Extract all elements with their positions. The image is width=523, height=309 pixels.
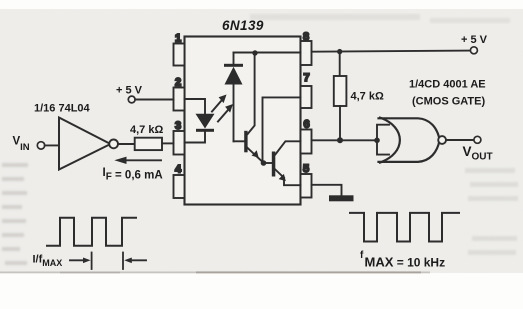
svg-text:4: 4	[175, 164, 182, 176]
wire inverter to R1	[118, 143, 135, 145]
resistor R2	[334, 76, 347, 106]
svg-text:1/16 74L04: 1/16 74L04	[34, 103, 91, 115]
wire NOR to VOUT	[446, 139, 474, 141]
NOR output bubble	[438, 136, 446, 144]
NOR gate U3 1/4 CD4001	[379, 118, 440, 163]
transistor Q1	[244, 53, 263, 163]
pin 6	[301, 130, 312, 154]
pin 1	[174, 44, 185, 66]
node photodiode/Q1 collector junction	[252, 50, 257, 55]
node R2 bottom junction	[337, 137, 343, 143]
svg-text:+ 5 V: + 5 V	[116, 85, 143, 97]
svg-text:3: 3	[175, 120, 181, 132]
arrow IF current direction	[125, 159, 161, 161]
terminal +5V right circle	[470, 47, 477, 54]
wire LED cathode to pin3 internal	[185, 132, 206, 143]
dimension tick left	[91, 253, 93, 270]
transistor Q2	[272, 141, 301, 185]
terminal +5V left circle	[128, 96, 135, 103]
node Q1 emitter / Q2 base junction	[261, 160, 267, 166]
waveform left square wave	[47, 218, 136, 246]
pin 5	[301, 174, 312, 198]
waveform right square wave	[350, 213, 459, 242]
terminal VOUT circle	[474, 136, 481, 143]
wire pin6 to gate input	[312, 139, 378, 141]
svg-text:6: 6	[303, 119, 309, 131]
wire junction to R2	[339, 52, 341, 76]
pin 7	[301, 86, 312, 108]
pin 2	[174, 88, 185, 111]
dimension tick right	[122, 253, 124, 270]
wire pin5 to ground	[312, 185, 342, 196]
svg-text:7: 7	[303, 72, 309, 84]
faint bleed-through smudges left margin	[2, 163, 28, 265]
wire gate input bracket	[377, 125, 389, 155]
wire pin2 internal to LED anode	[185, 99, 206, 114]
svg-text:6N139: 6N139	[222, 18, 264, 33]
node R2 top junction	[337, 49, 342, 54]
wire R1 to pin 3	[162, 142, 174, 144]
pin 8	[301, 41, 312, 65]
svg-text:1: 1	[175, 33, 181, 45]
wire pin8 to +5V right	[312, 51, 471, 52]
svg-text:1/4CD 4001 AE: 1/4CD 4001 AE	[409, 79, 486, 91]
pin 3	[174, 131, 185, 155]
svg-text:5: 5	[303, 163, 309, 175]
LED D1 emitter diode	[196, 114, 215, 132]
pin 4	[174, 175, 185, 198]
wire node to Q2 base	[264, 162, 272, 164]
dimension arrow left-pointing	[124, 258, 146, 264]
inverter U2 1/16 74L04	[59, 118, 111, 170]
IC U1 6N139 body	[185, 37, 301, 205]
ground	[329, 195, 354, 201]
faint bleed-through smudges right margin	[465, 168, 518, 255]
svg-text:4,7 kΩ: 4,7 kΩ	[351, 91, 384, 103]
svg-text:+ 5 V: + 5 V	[461, 34, 488, 46]
inverter output bubble	[109, 140, 118, 149]
wire R2 bottom to node	[339, 106, 341, 140]
light emission arrows	[212, 101, 228, 122]
node gate input junction	[374, 138, 380, 144]
svg-text:(CMOS GATE): (CMOS GATE)	[412, 96, 485, 108]
svg-text:MAX = 10 kHz: MAX = 10 kHz	[365, 255, 446, 270]
wire VIN to inverter	[45, 144, 59, 146]
wire to Q1 base	[234, 140, 245, 142]
wire pin7 internal to Q2 base node	[263, 97, 301, 162]
dimension arrow right-pointing	[70, 258, 91, 264]
svg-text:IF = 0,6 mA: IF = 0,6 mA	[103, 167, 163, 183]
resistor R1	[135, 138, 162, 150]
svg-text:8: 8	[303, 31, 309, 43]
svg-text:4,7 kΩ: 4,7 kΩ	[130, 124, 163, 136]
terminal VIN circle	[37, 142, 44, 149]
wire photodiode anode down	[233, 85, 235, 142]
svg-text:2: 2	[175, 77, 181, 89]
wire +5V to pin 2	[135, 99, 173, 101]
wire internal pin8 rail	[234, 52, 301, 54]
wire photodiode cathode riser	[233, 53, 235, 65]
photodiode D2	[224, 64, 243, 85]
